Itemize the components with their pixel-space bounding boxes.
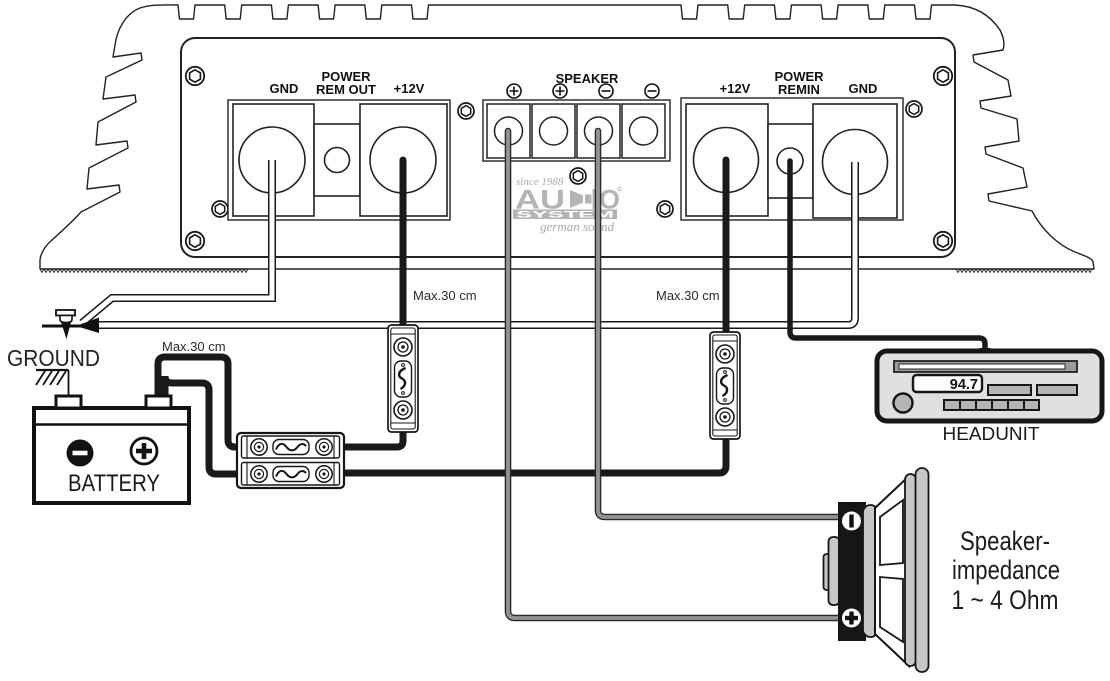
svg-text:REM OUT: REM OUT bbox=[316, 82, 376, 97]
speaker rim bbox=[905, 474, 916, 666]
wire: battery positive inner bbox=[165, 376, 252, 474]
left terminal block outer bbox=[228, 100, 450, 220]
svg-text:GND: GND bbox=[270, 81, 299, 96]
left +12V terminal square bbox=[360, 104, 447, 216]
hex screw top-left bbox=[186, 67, 204, 85]
right REMIN cell bbox=[768, 124, 813, 198]
speaker cone frame bbox=[875, 476, 909, 666]
speaker bbox=[824, 468, 929, 672]
right +12V terminal square bbox=[686, 104, 768, 216]
amplifier heatsink body outline bbox=[40, 5, 1094, 269]
serrated foot right bbox=[956, 269, 1092, 273]
wire: right +12V black wire through fuse bbox=[336, 160, 726, 473]
wire: left GND white wire to chassis screw bbox=[82, 160, 272, 323]
speaker polarity symbols bbox=[507, 84, 659, 98]
headunit bbox=[877, 351, 1102, 444]
fuse holder right bbox=[710, 332, 740, 439]
svg-text:94.7: 94.7 bbox=[950, 377, 978, 393]
svg-text:GND: GND bbox=[849, 81, 878, 96]
ground hatch symbol bbox=[36, 370, 69, 397]
wire: left +12V black wire through fuse bbox=[334, 160, 403, 447]
svg-text:1 ~ 4 Ohm: 1 ~ 4 Ohm bbox=[952, 585, 1059, 615]
svg-text:BATTERY: BATTERY bbox=[68, 470, 160, 497]
wire: speaker minus gray bbox=[598, 131, 846, 517]
svg-text:Max.30 cm: Max.30 cm bbox=[162, 339, 226, 354]
battery bbox=[34, 396, 189, 503]
svg-text:Max.30 cm: Max.30 cm bbox=[656, 288, 720, 303]
ground arrow into screw bbox=[76, 318, 99, 334]
hex screw bottom-left bbox=[186, 232, 204, 250]
hex screw bottom-right bbox=[934, 232, 952, 250]
right REMIN circle bbox=[777, 148, 803, 174]
speaker magnet bbox=[824, 554, 831, 590]
AUDIO SYSTEM logo bbox=[513, 176, 621, 234]
right terminal block outer bbox=[681, 98, 903, 220]
svg-text:GROUND: GROUND bbox=[7, 345, 100, 371]
left REM OUT circle bbox=[325, 148, 350, 173]
svg-text:german sound: german sound bbox=[540, 219, 615, 234]
svg-text:HEADUNIT: HEADUNIT bbox=[943, 424, 1040, 444]
speaker terminal block bbox=[483, 100, 670, 161]
speaker terminal plate bbox=[838, 502, 866, 641]
right +12V terminal circle bbox=[694, 128, 759, 193]
hex screw logo bbox=[570, 168, 586, 184]
hex screw mid-left small bbox=[212, 201, 228, 217]
fuse distribution block bbox=[237, 433, 344, 488]
right GND terminal circle bbox=[823, 130, 888, 195]
hex screw mid-right small bbox=[657, 201, 673, 217]
hex screw top-right bbox=[934, 67, 952, 85]
left GND terminal circle bbox=[239, 127, 305, 193]
left +12V terminal circle bbox=[370, 127, 436, 193]
speaker terminal plus bbox=[842, 609, 861, 628]
svg-text:REMIN: REMIN bbox=[778, 82, 820, 97]
svg-text:impedance: impedance bbox=[952, 555, 1060, 585]
hex screw right of +12V bbox=[458, 103, 474, 119]
svg-text:Speaker-: Speaker- bbox=[960, 526, 1050, 556]
svg-text:Max.30 cm: Max.30 cm bbox=[413, 288, 477, 303]
wire: battery positive outer bbox=[158, 357, 252, 447]
speaker impedance caption bbox=[952, 526, 1061, 615]
amp connection panel bbox=[181, 38, 955, 257]
wire: right GND white wire to chassis screw bbox=[95, 162, 855, 325]
svg-text:+12V: +12V bbox=[720, 81, 751, 96]
speaker terminal minus bbox=[842, 512, 861, 531]
chassis ground screw bbox=[42, 310, 98, 339]
serrated foot left bbox=[40, 269, 248, 273]
svg-text:SPEAKER: SPEAKER bbox=[556, 71, 619, 86]
speaker surround bbox=[863, 505, 878, 637]
right GND terminal square bbox=[813, 104, 897, 218]
left GND terminal square bbox=[233, 104, 314, 216]
wire: speaker plus gray bbox=[508, 131, 846, 618]
left REM OUT cell bbox=[314, 124, 360, 196]
hex screw left of right +12V bbox=[906, 101, 922, 117]
fuse holder left bbox=[388, 325, 418, 432]
svg-text:+12V: +12V bbox=[394, 81, 425, 96]
wire: remote wire to headunit bbox=[790, 161, 985, 358]
remote wire taper into headunit bbox=[980, 348, 991, 360]
